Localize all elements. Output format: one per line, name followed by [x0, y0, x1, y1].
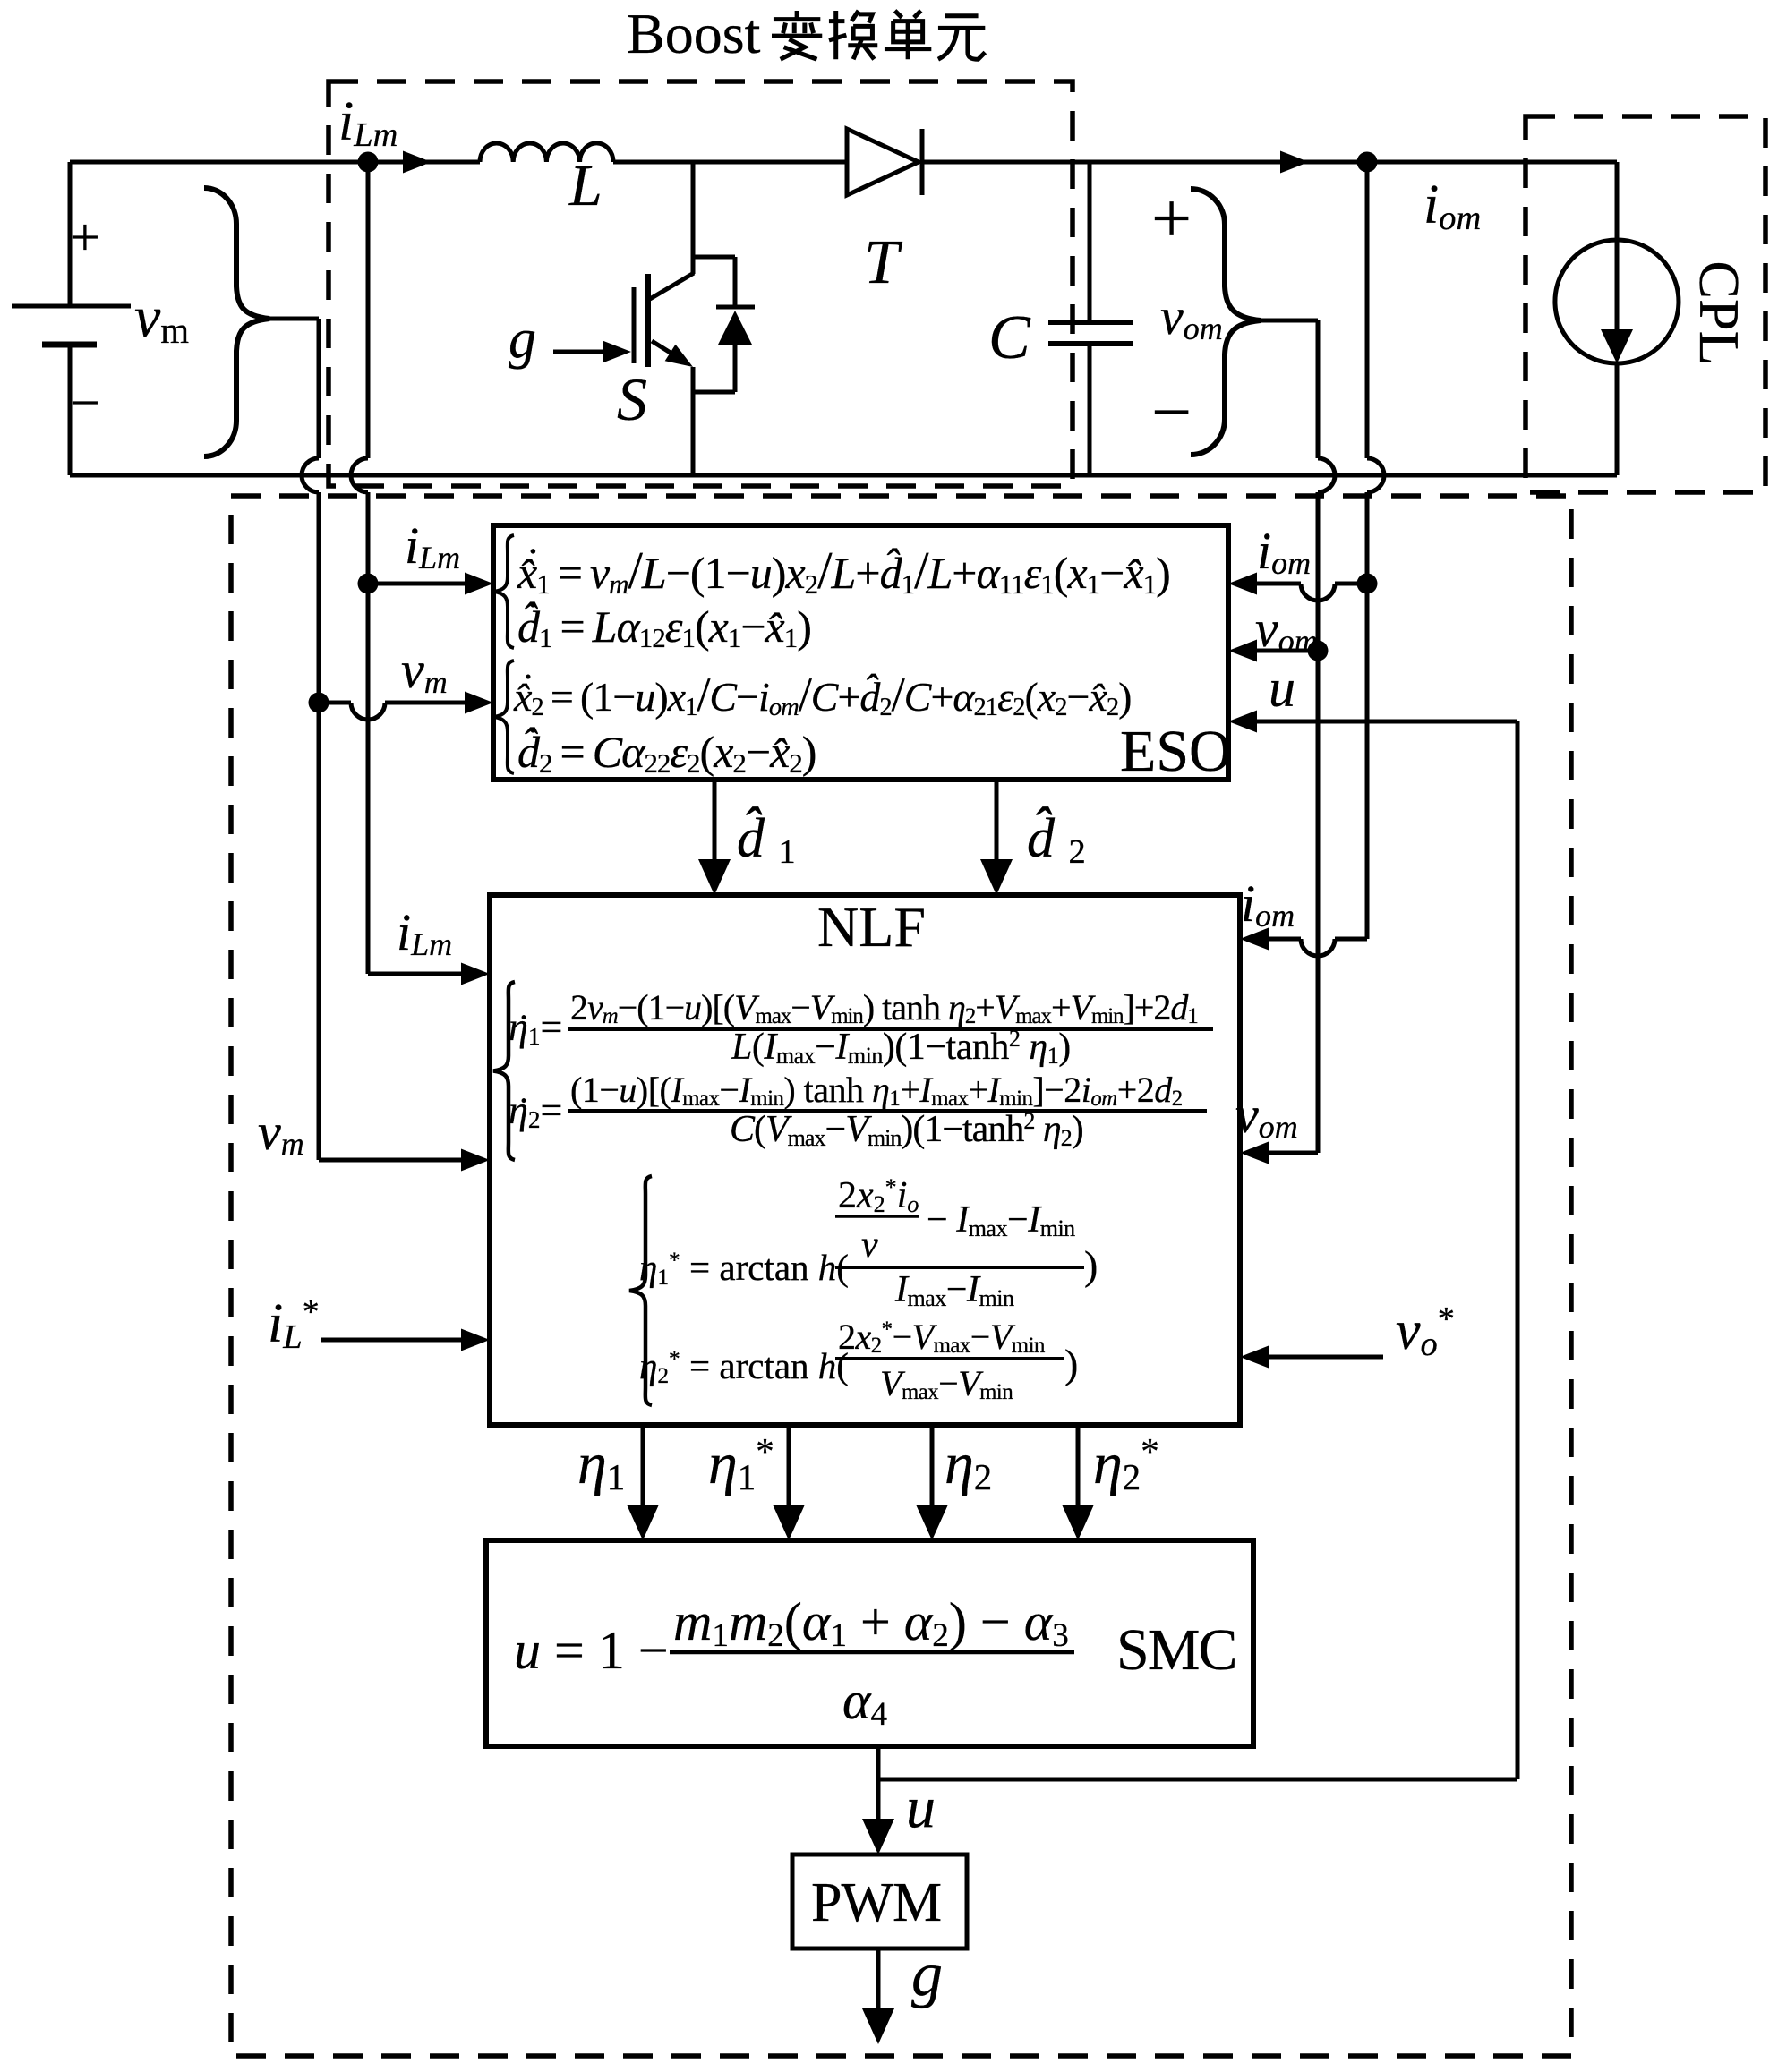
wire top bus right — [922, 160, 1617, 165]
NLF eta1-star mini numerator — [838, 1177, 919, 1215]
label vom at NLF input — [1235, 1089, 1298, 1141]
label plus vom — [1151, 183, 1192, 255]
label vom brace — [1160, 291, 1223, 343]
label iLm at NLF input — [397, 907, 452, 959]
title CJK huan — [829, 11, 877, 59]
label d1-hat — [737, 811, 796, 866]
antiparallel diode branch bottom — [693, 345, 735, 392]
SMC block box — [486, 1540, 1253, 1746]
wire iLm to ESO — [368, 582, 466, 586]
wire u from SMC — [876, 1746, 881, 1822]
node iom — [1357, 152, 1378, 173]
arrowhead eta2 into SMC — [916, 1505, 948, 1540]
label g PWM output — [911, 1944, 943, 2007]
label minus vom — [1151, 377, 1192, 448]
NLF eta1-dot numerator — [570, 990, 1198, 1026]
label CPL rotated — [1690, 253, 1748, 373]
NLF brace pair eta-star — [629, 1176, 652, 1405]
label eta1-star — [708, 1435, 774, 1494]
diode T triangle — [847, 129, 919, 195]
NLF eta2-star numerator — [838, 1319, 1045, 1355]
node vom tap — [1308, 641, 1329, 661]
label SMC — [1116, 1621, 1235, 1680]
label minus battery — [70, 376, 100, 430]
Boost converter unit dashed box — [329, 81, 1073, 486]
arrowhead eta2-star into SMC — [1062, 1505, 1094, 1540]
node iom tap — [1357, 574, 1378, 594]
wire vm sense to NLF — [319, 703, 463, 1160]
NLF eta1-dot denominator — [731, 1028, 1071, 1066]
label S switch — [617, 369, 647, 430]
CPL current source arrow — [1615, 240, 1620, 333]
PWM block box — [792, 1855, 967, 1948]
brace vm — [204, 188, 269, 456]
label vo-star — [1396, 1303, 1455, 1359]
NLF eta1-dot lhs — [509, 1008, 562, 1047]
title CJK dan — [885, 11, 931, 59]
wire eta2 output — [930, 1425, 935, 1506]
wire u feedback — [878, 721, 1517, 1779]
arrowhead vm into ESO — [465, 692, 493, 714]
capacitor C bottom lead — [1088, 344, 1092, 475]
label iLm top — [338, 94, 397, 149]
ESO brace pair 1 — [494, 535, 514, 648]
label vm at NLF input — [258, 1106, 304, 1158]
wire iom sense down — [1365, 162, 1370, 458]
label iL-star — [268, 1296, 320, 1351]
wire iom sense to NLF — [1335, 584, 1367, 939]
label NLF — [817, 899, 926, 956]
SMC denominator — [842, 1674, 887, 1727]
label vm at ESO input — [401, 644, 448, 696]
wire top bus — [70, 160, 480, 165]
NLF brace pair eta-dot — [493, 982, 515, 1160]
transistor S gate bar — [632, 287, 637, 363]
ESO equation line 2 — [517, 604, 811, 649]
CPL branch wire bottom — [1615, 363, 1620, 475]
wire vom sense to NLF — [1269, 651, 1318, 1153]
transistor S emitter wire — [691, 367, 696, 475]
arrow iom on top bus — [1280, 151, 1309, 174]
arrowhead iom into ESO — [1228, 573, 1257, 595]
capacitor C bottom plate — [1048, 341, 1133, 346]
CPL current source circle — [1555, 240, 1679, 363]
arrowhead eta1-star into SMC — [773, 1505, 805, 1540]
label eta2 — [945, 1435, 992, 1494]
label iLm at ESO input — [405, 520, 460, 572]
NLF eta1-star closing paren — [1084, 1245, 1098, 1286]
NLF eta1-star numerator tail — [927, 1201, 1075, 1239]
battery source vm left vertical — [68, 162, 73, 306]
NLF eta2-star lhs — [639, 1348, 849, 1385]
arrowhead d1-hat into NLF — [698, 859, 731, 895]
SMC formula lhs — [514, 1624, 669, 1677]
NLF eta2-star denominator — [880, 1366, 1013, 1402]
label C capacitor — [988, 307, 1030, 370]
label plus battery — [70, 210, 100, 264]
transistor S collector angle — [650, 273, 694, 299]
wire iLm sense down — [366, 162, 371, 458]
label T diode — [864, 232, 899, 294]
arrowhead vom into NLF — [1240, 1142, 1269, 1164]
wire eta1 output — [641, 1425, 645, 1506]
NLF eta1-star denominator — [895, 1271, 1014, 1309]
node vm tap — [309, 693, 329, 713]
wire eta2-star output — [1076, 1425, 1081, 1506]
wire hop vm-ESO over iLm line — [351, 703, 385, 720]
label iom at NLF input — [1241, 878, 1295, 930]
NLF eta2-dot lhs — [509, 1091, 562, 1130]
arrowhead iLm into NLF — [461, 963, 490, 985]
NLF eta1-star mini denominator — [861, 1226, 878, 1264]
ESO equation line 4 — [517, 729, 816, 774]
arrowhead g output — [862, 2008, 894, 2044]
fraction bar eta2-dot — [568, 1109, 1207, 1113]
CPL dashed box — [1526, 116, 1765, 492]
NLF block box — [490, 895, 1240, 1425]
ESO block box — [493, 525, 1228, 780]
antiparallel diode triangle — [718, 311, 752, 345]
wire top bus mid — [613, 160, 847, 165]
wire hop iom-ESO over vom line — [1301, 584, 1335, 601]
battery plate long — [12, 304, 131, 309]
NLF eta1-star lhs — [639, 1249, 849, 1286]
fraction bar eta2-star — [835, 1357, 1064, 1360]
wire vm to ESO — [319, 701, 351, 705]
wire g from PWM — [876, 1948, 881, 2010]
wire iom to ESO — [1335, 582, 1367, 586]
fraction bar eta1-star — [835, 1266, 1084, 1269]
transistor S emitter arrowhead — [665, 345, 693, 367]
wire hop iLm over bottom bus — [351, 458, 368, 492]
wire iLm sense to NLF — [368, 584, 463, 974]
wire hop vm over bottom bus — [302, 458, 319, 492]
inductor L — [480, 143, 613, 162]
SMC numerator — [673, 1595, 1069, 1649]
transistor S collector wire — [691, 162, 696, 274]
wire vom sense from brace — [1261, 320, 1318, 458]
wire vm sense down — [317, 492, 321, 703]
arrowhead u into ESO — [1228, 711, 1257, 733]
gate drive arrow g — [553, 350, 605, 354]
ESO equation line 1 — [517, 544, 1170, 597]
diode T cathode bar — [920, 129, 925, 195]
fraction bar mini 2x2io/v — [835, 1215, 919, 1218]
NLF eta2-dot denominator — [730, 1111, 1083, 1148]
battery source vm lower vertical — [68, 345, 73, 475]
title CJK bian — [772, 11, 822, 59]
capacitor C top plate — [1048, 320, 1133, 325]
arrowhead iom into NLF — [1240, 928, 1269, 951]
fraction bar SMC — [670, 1650, 1074, 1655]
arrowhead vo-star into NLF — [1240, 1346, 1269, 1369]
transistor S body bar — [645, 274, 651, 367]
wire vm sense from brace — [269, 319, 319, 458]
arrowhead eta1 into SMC — [627, 1505, 659, 1540]
arrowhead u into PWM — [862, 1819, 894, 1855]
capacitor C top lead — [1088, 162, 1092, 322]
antiparallel diode branch top — [693, 257, 735, 307]
transistor S emitter angle — [652, 341, 680, 359]
label iom top — [1423, 177, 1481, 233]
wire hop iom over bottom bus — [1367, 458, 1384, 492]
label eta2-star — [1093, 1435, 1159, 1494]
arrow iLm on top bus — [403, 151, 432, 174]
title CJK yuan — [938, 16, 985, 60]
controller dashed box — [231, 496, 1571, 2056]
ESO brace pair 2 — [494, 661, 514, 773]
wire d1-hat output — [713, 780, 717, 861]
NLF eta2-dot numerator — [570, 1072, 1183, 1108]
wire eta1-star output — [787, 1425, 791, 1506]
label L inductor — [569, 157, 603, 216]
label ESO — [1120, 722, 1232, 781]
wire bottom bus — [70, 473, 1617, 478]
label vm battery — [134, 288, 189, 347]
label u at ESO input — [1269, 661, 1295, 715]
wire vom to ESO — [1257, 649, 1318, 653]
arrowhead vom into ESO — [1228, 640, 1257, 662]
wire d2-hat output — [995, 780, 999, 861]
wire vo-star reference — [1269, 1355, 1383, 1360]
arrowhead vm into NLF — [461, 1149, 490, 1172]
wire iL-star reference — [321, 1338, 463, 1343]
node iLm — [358, 152, 379, 173]
label iom at ESO input — [1257, 525, 1311, 577]
wire hop vom over bottom bus — [1318, 458, 1335, 492]
arrowhead iLm into ESO — [465, 573, 493, 595]
label PWM — [811, 1875, 941, 1931]
arrowhead d2-hat into NLF — [980, 859, 1013, 895]
antiparallel diode cathode bar — [716, 305, 755, 310]
node iLm tap — [358, 574, 379, 594]
NLF eta2-star closing paren — [1064, 1343, 1078, 1385]
battery plate short — [42, 342, 97, 348]
fraction bar eta1-dot — [568, 1027, 1213, 1031]
label vom at ESO input — [1255, 603, 1318, 655]
brace vom — [1191, 189, 1261, 455]
wire hop iom-NLF over vom line — [1301, 939, 1335, 956]
ESO equation line 3 — [514, 670, 1131, 719]
label eta1 — [577, 1435, 625, 1494]
label g gate — [509, 311, 536, 367]
arrowhead iL-star into NLF — [461, 1329, 490, 1351]
CPL branch wire down — [1615, 162, 1620, 240]
title Boost text — [627, 5, 760, 63]
label d2-hat — [1027, 811, 1086, 866]
label u SMC output — [906, 1778, 936, 1838]
